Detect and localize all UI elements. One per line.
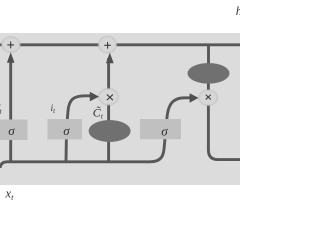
node: x circle right [199,90,218,105]
node: + circle middle [99,36,117,52]
svg-text:σ: σ [161,124,168,139]
arrowhead into x middle [90,92,99,102]
tanh ellipse (output, right) [188,63,230,84]
cell body [0,33,240,185]
wire: input line along bottom from x_t [0,162,150,168]
arrowhead into + middle [106,53,114,64]
times symbol middle [107,95,112,100]
svg-text:σ: σ [8,123,15,138]
plus symbol left [8,42,14,48]
sigma box 3 (output gate) [140,119,181,139]
tanh ellipse (candidate C~) [89,120,131,142]
sigma box 1 (forget gate) [0,120,28,141]
arrowhead into + left [7,52,15,63]
node: x circle middle [99,89,119,105]
svg-text:h: h [236,4,240,18]
svg-text:σ: σ [63,123,70,138]
wire: branch down to tanh (right) [207,45,210,66]
sigma box 2 (input gate) [48,119,83,139]
wire: forget column up to + [9,58,12,162]
wire: middle column + to x to tanh candidate [107,58,110,162]
wire: input-gate column through sigma2 curving to x [66,96,91,162]
wire: output-gate column through sigma3 curving to x [150,98,191,162]
plus symbol middle [105,42,111,48]
times symbol right [206,95,210,99]
node: + circle left [2,37,20,52]
wire: right column tanh to x to output exit right [208,80,240,160]
wire: cell state top line [0,43,240,46]
arrowhead into x right [190,93,199,103]
